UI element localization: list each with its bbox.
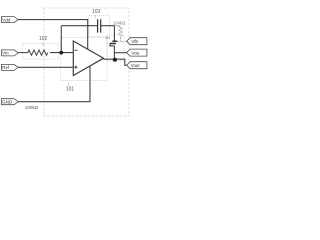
op-amp U1 (73, 41, 103, 76)
svg-text:GND: GND (2, 99, 12, 104)
port Vfb (127, 38, 147, 45)
bbox resistor R1 (23, 43, 59, 59)
port Vdd (1, 17, 18, 23)
wire GND rail with op-amp V- pin (18, 66, 90, 102)
junction node A dot (59, 51, 63, 55)
wire Vdd rail with op-amp V+ pin (18, 20, 87, 50)
svg-text:104kΩ: 104kΩ (113, 20, 125, 25)
port Voa (127, 49, 147, 56)
svg-text:Vin: Vin (2, 51, 9, 56)
svg-text:Voa: Voa (131, 50, 139, 55)
svg-text:Vfb: Vfb (131, 39, 138, 44)
port Vin (1, 50, 18, 56)
wire Ref to op-amp plus input (18, 66, 73, 68)
wire feedback top from node A to capacitor (61, 25, 97, 27)
junction node B dot (113, 58, 117, 62)
op-amp plus input marking (74, 66, 77, 69)
component D1 plates (110, 41, 118, 43)
svg-text:100kΩ: 100kΩ (25, 105, 39, 110)
ghost resistor 104k zigzag (119, 26, 123, 42)
port GND (1, 99, 18, 105)
wire resistor to op-amp minus input (50, 52, 73, 54)
wire Vin to resistor (18, 52, 28, 54)
wire node A vertical (60, 26, 62, 53)
svg-text:103: 103 (92, 9, 101, 15)
svg-text:Ref: Ref (2, 65, 10, 70)
port Vout (127, 62, 147, 69)
module boundary rectangle (44, 8, 129, 116)
wire capacitor to D1 (101, 26, 115, 42)
wire op-amp output to node B and port Vout (104, 59, 128, 65)
port Ref (1, 64, 18, 70)
svg-text:Vout: Vout (131, 63, 141, 68)
svg-text:Vdd: Vdd (2, 17, 10, 22)
wire branch to port Voa (114, 52, 127, 54)
ghost stub wire (115, 25, 121, 27)
svg-text:101: 101 (66, 87, 75, 93)
dash-dot wire to port Vfb (117, 41, 127, 43)
bbox capacitor C1 (89, 16, 110, 37)
op-amp minus input marking (75, 49, 78, 51)
bbox component D1 (107, 35, 124, 61)
bbox op-amp U1 (61, 38, 107, 81)
resistor R1 zigzag (28, 50, 48, 55)
wire D1 to output node B (110, 44, 115, 60)
svg-text:D1: D1 (106, 36, 111, 40)
capacitor C1 plates (98, 19, 101, 32)
